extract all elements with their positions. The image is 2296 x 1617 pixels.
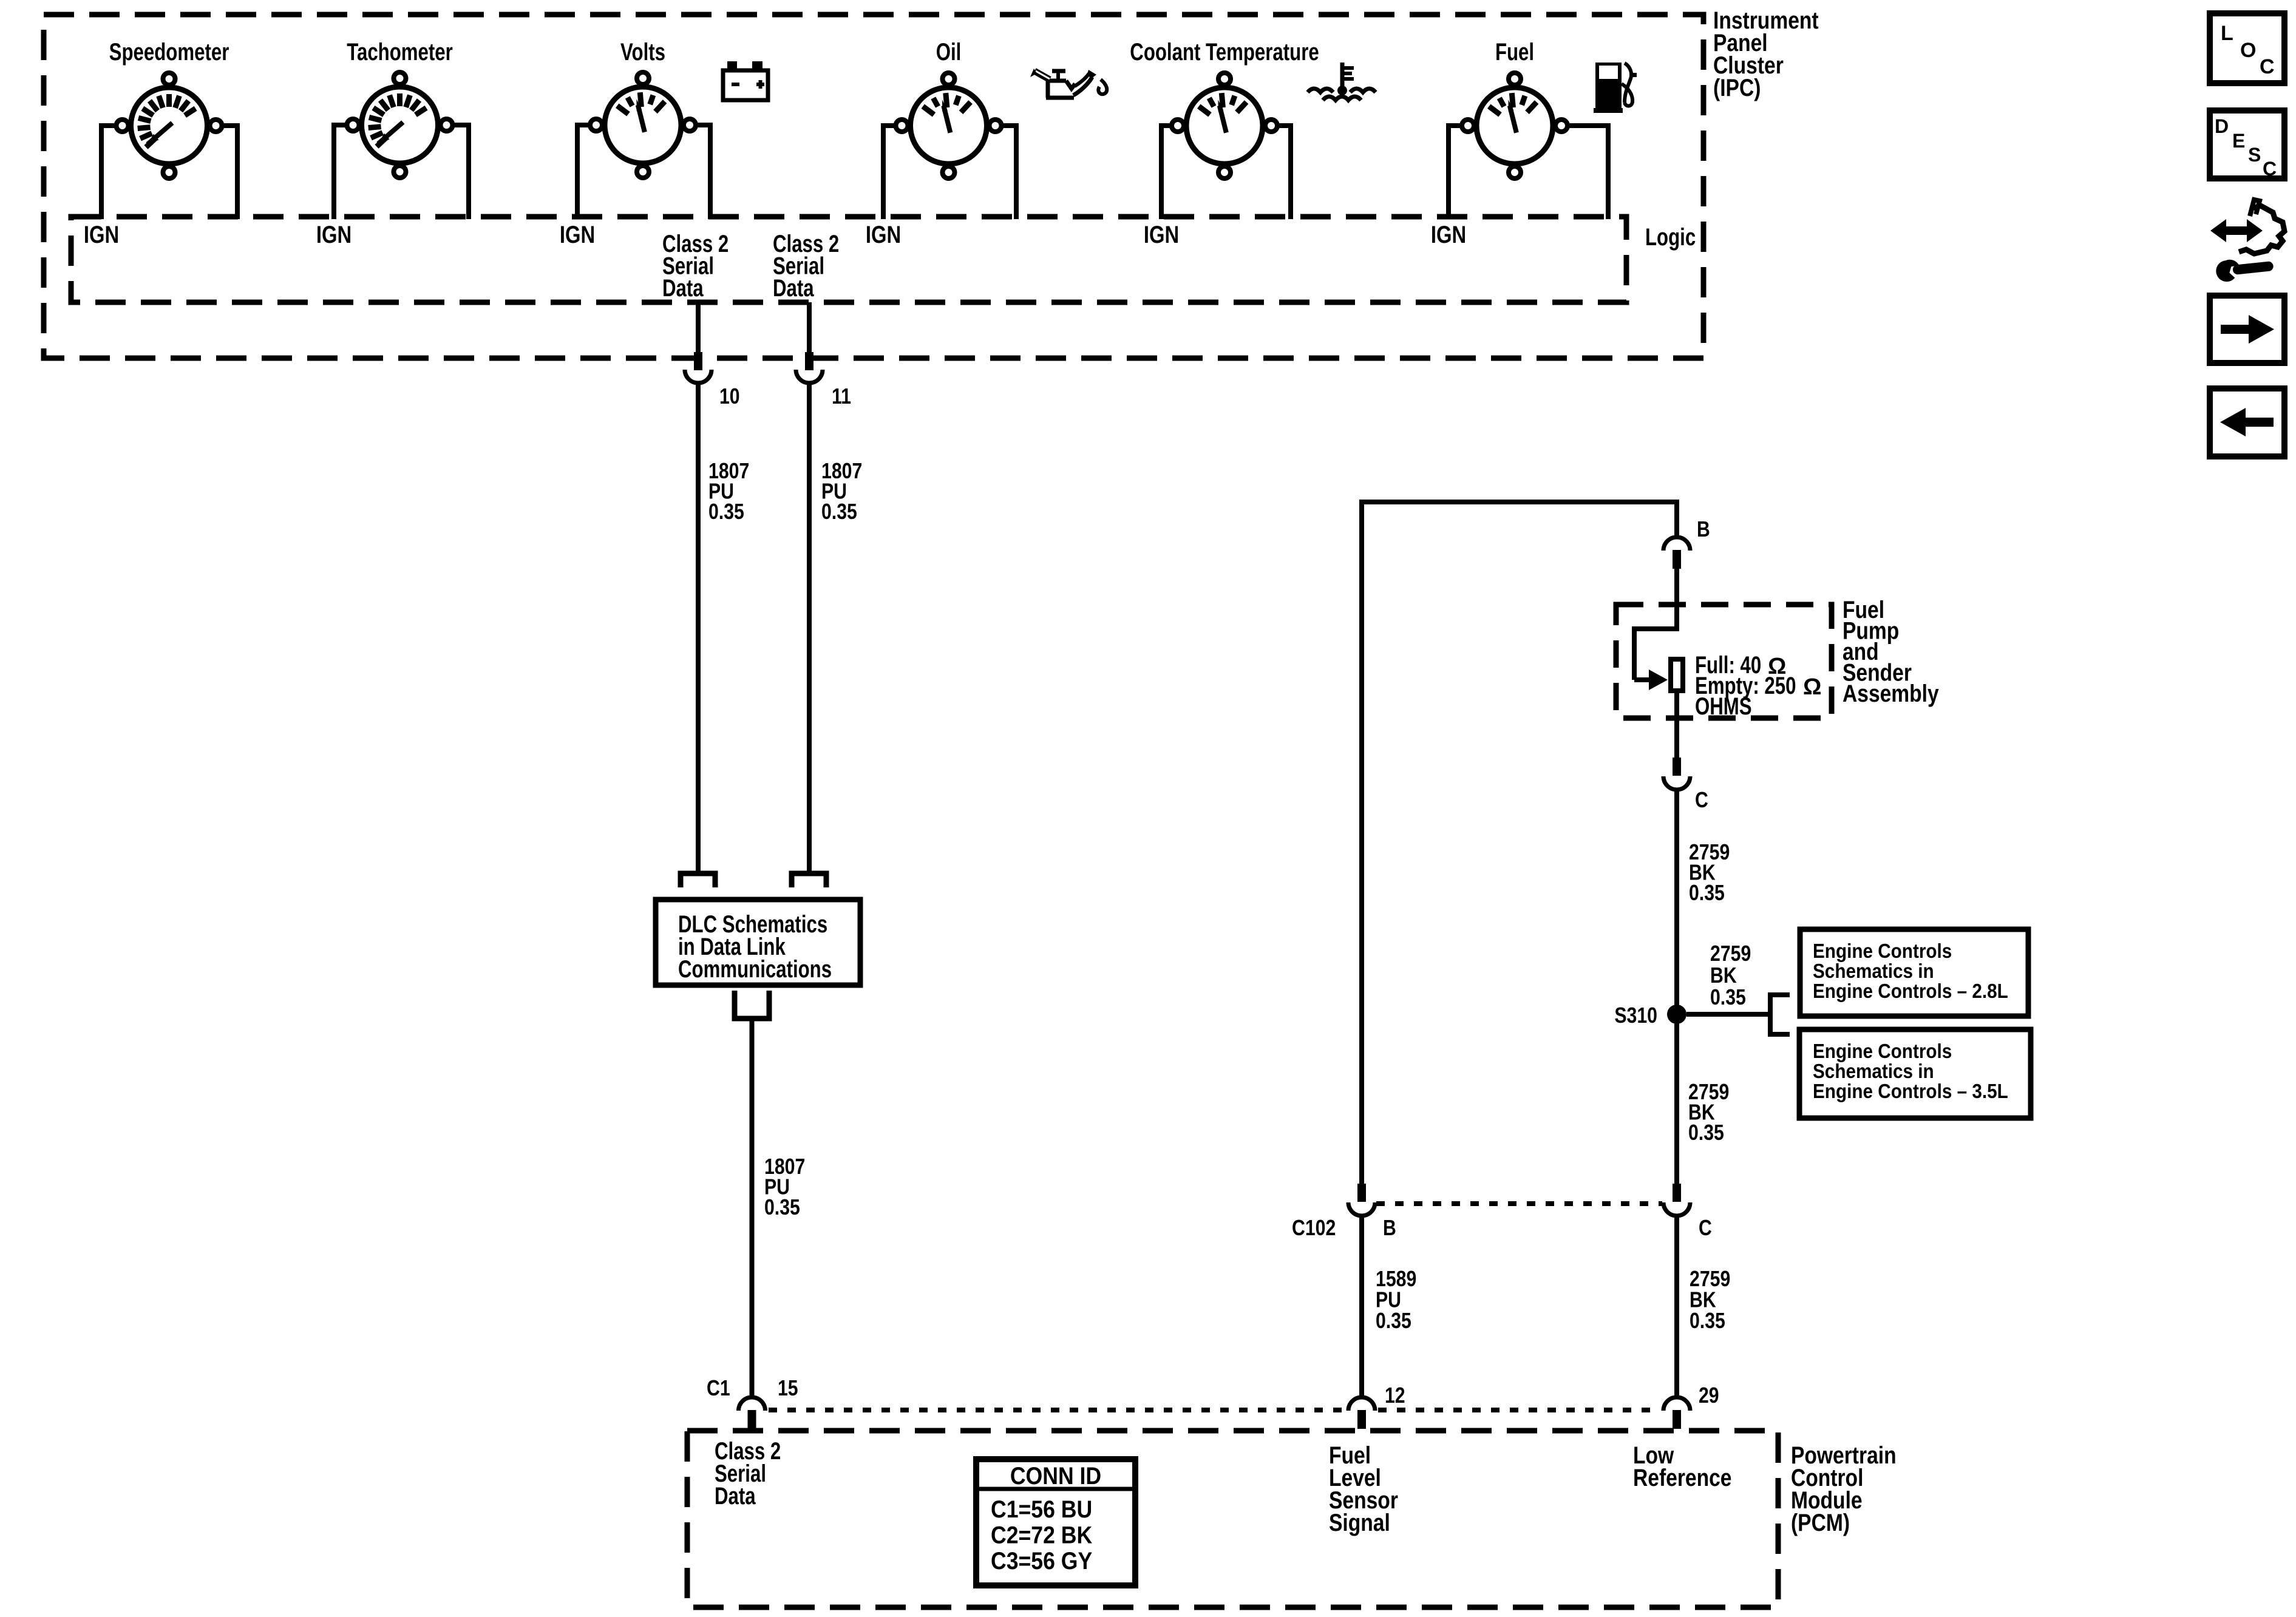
gauge Oil xyxy=(896,73,1002,178)
label 2759 BK 0.35 (below S310) xyxy=(1688,1079,1729,1145)
wire down to fuel pump connector B xyxy=(1674,500,1679,538)
label 2759 BK 0.35 (above S310) xyxy=(1689,839,1730,905)
label IGN (Oil) xyxy=(866,222,901,248)
label B (fuel pump) xyxy=(1697,517,1710,541)
wire 1589 PU from C102 to PCM pin 12 xyxy=(1359,1216,1364,1398)
Instrument Panel Cluster (IPC) dashed box xyxy=(44,15,1703,358)
svg-text:Tachometer: Tachometer xyxy=(347,39,453,66)
gauge Volts xyxy=(590,72,696,178)
connector C102 pin B xyxy=(1348,1184,1375,1216)
svg-text:29: 29 xyxy=(1699,1383,1719,1408)
label C (fuel pump) xyxy=(1695,787,1708,812)
wire class 2 serial data from Logic (pin 11) xyxy=(807,302,812,352)
connector pin 29 at PCM xyxy=(1663,1397,1690,1429)
label Speedometer xyxy=(109,39,229,66)
label Full: 40 ohms xyxy=(1695,652,1786,679)
Engine Controls Schematics 3.5L box xyxy=(1799,1029,2031,1118)
svg-text:E: E xyxy=(2232,130,2245,152)
wire 2759 BK from C to S310 xyxy=(1674,790,1679,1014)
wire 1589 PU left vertical xyxy=(1359,500,1364,1184)
connector pin 10 at IPC xyxy=(685,352,712,383)
splice S310 xyxy=(1667,1005,1686,1024)
label S310 xyxy=(1614,1003,1657,1028)
svg-text:Communications: Communications xyxy=(678,956,832,983)
label 15 xyxy=(778,1375,798,1400)
label Low Reference xyxy=(1633,1442,1732,1491)
svg-text:0.35: 0.35 xyxy=(1689,880,1725,905)
svg-text:Coolant Temperature: Coolant Temperature xyxy=(1130,39,1319,66)
coolant temperature icon xyxy=(1308,63,1376,100)
connector bracket into DLC (left) xyxy=(681,873,715,887)
svg-text:Fuel: Fuel xyxy=(1495,39,1534,66)
svg-text:C1=56 BU: C1=56 BU xyxy=(991,1496,1092,1523)
svg-text:IGN: IGN xyxy=(866,222,901,248)
label C (C102) xyxy=(1699,1215,1712,1240)
wire Fuel left terminal to Logic box xyxy=(1446,126,1462,219)
wire Fuel right terminal to Logic box xyxy=(1567,126,1611,219)
wire elbow inside fuel pump xyxy=(1632,626,1677,680)
label Class 2 Serial Data (PCM) xyxy=(715,1438,781,1510)
svg-text:12: 12 xyxy=(1385,1383,1405,1408)
gauge Tachometer xyxy=(347,72,453,178)
label Fuel Pump and Sender Assembly xyxy=(1843,597,1939,707)
label 11 xyxy=(832,384,851,408)
connector bracket into DLC (right) xyxy=(792,873,826,887)
svg-text:IGN: IGN xyxy=(560,222,595,248)
label Logic xyxy=(1645,224,1696,251)
svg-text:BK: BK xyxy=(1710,963,1737,988)
svg-text:0.35: 0.35 xyxy=(708,499,744,524)
Logic dashed box xyxy=(71,217,1626,302)
gauge Speedometer xyxy=(117,73,222,178)
wire Coolant Temperature left terminal to Logic box xyxy=(1159,126,1172,219)
svg-text:C: C xyxy=(2263,158,2277,180)
label IGN (Volts) xyxy=(560,222,595,248)
label IGN (Speedometer) xyxy=(84,222,119,248)
svg-text:Volts: Volts xyxy=(620,39,665,66)
label Oil xyxy=(936,39,962,66)
svg-text:Engine Controls: Engine Controls xyxy=(1813,940,1952,962)
gauge Fuel xyxy=(1462,73,1567,178)
gauge Coolant Temperature xyxy=(1172,73,1277,178)
svg-text:B: B xyxy=(1383,1215,1396,1240)
svg-text:C: C xyxy=(1699,1215,1712,1240)
label 1807 PU 0.35 (pin 10 wire) xyxy=(708,458,749,524)
wire B pin into fuel pump box xyxy=(1674,569,1679,631)
wire 1807 PU to DLC (from pin 10) xyxy=(696,383,701,873)
connector pin 15 at PCM (C1) xyxy=(739,1397,766,1429)
label 2759 BK 0.35 (branch) xyxy=(1710,941,1751,1009)
label OHMS xyxy=(1695,693,1752,720)
connector B at fuel pump xyxy=(1663,537,1690,569)
dotted line C102 xyxy=(1376,1201,1662,1206)
label 1807 PU 0.35 (pin 11 wire) xyxy=(821,458,862,524)
label IGN (Fuel) xyxy=(1431,222,1466,248)
svg-text:2759: 2759 xyxy=(1710,941,1751,966)
wire S310 branch to engine controls xyxy=(1686,1012,1770,1017)
svg-text:O: O xyxy=(2240,39,2256,62)
label Class 2 Serial Data (pin 11) xyxy=(773,231,839,302)
label 1589 PU 0.35 xyxy=(1376,1266,1416,1333)
svg-text:0.35: 0.35 xyxy=(821,499,857,524)
wire Speedometer left terminal to Logic box xyxy=(99,126,117,219)
wire 2759 BK below S310 xyxy=(1674,1014,1679,1184)
svg-text:Speedometer: Speedometer xyxy=(109,39,229,66)
wire Volts left terminal to Logic box xyxy=(575,125,590,219)
wire 1807 PU to DLC (from pin 11) xyxy=(807,383,812,873)
wire Oil right terminal to Logic box xyxy=(1002,126,1019,219)
svg-text:0.35: 0.35 xyxy=(1688,1120,1724,1145)
svg-text:0.35: 0.35 xyxy=(764,1195,800,1219)
svg-text:Oil: Oil xyxy=(936,39,962,66)
wire Tachometer left terminal to Logic box xyxy=(331,125,347,219)
label 1807 PU 0.35 (DLC to PCM) xyxy=(764,1154,805,1219)
wire Tachometer right terminal to Logic box xyxy=(453,125,472,219)
wire from sender down to connector C xyxy=(1674,691,1679,759)
label Coolant Temperature xyxy=(1130,39,1319,66)
svg-text:11: 11 xyxy=(832,384,851,408)
label Class 2 Serial Data (pin 10) xyxy=(662,231,729,302)
label Tachometer xyxy=(347,39,453,66)
bracket to engine controls boxes xyxy=(1768,995,1790,1034)
label 29 xyxy=(1699,1383,1719,1408)
svg-text:Schematics in: Schematics in xyxy=(1813,1060,1934,1082)
label C1 xyxy=(707,1375,730,1400)
svg-text:15: 15 xyxy=(778,1375,798,1400)
label 10 xyxy=(719,384,740,408)
wire Volts right terminal to Logic box xyxy=(696,125,713,219)
connector bracket below DLC xyxy=(735,991,769,1019)
wire 1589 PU top horizontal xyxy=(1359,500,1679,504)
svg-text:S: S xyxy=(2248,144,2261,166)
label IGN (Tachometer) xyxy=(316,222,352,248)
svg-text:IGN: IGN xyxy=(1431,222,1466,248)
svg-text:Assembly: Assembly xyxy=(1843,680,1939,707)
svg-text:Data: Data xyxy=(715,1483,756,1510)
arrow into sender resistor xyxy=(1649,670,1668,690)
svg-text:C: C xyxy=(2260,55,2275,78)
label Instrument Panel Cluster (IPC) xyxy=(1713,7,1819,101)
svg-text:IGN: IGN xyxy=(1144,222,1179,248)
svg-text:Data: Data xyxy=(662,275,704,302)
svg-text:IGN: IGN xyxy=(316,222,352,248)
back arrow box xyxy=(2210,388,2284,456)
svg-text:L: L xyxy=(2221,22,2233,45)
svg-text:0.35: 0.35 xyxy=(1690,1308,1725,1333)
svg-text:Logic: Logic xyxy=(1645,224,1696,251)
label Fuel xyxy=(1495,39,1534,66)
svg-text:S310: S310 xyxy=(1614,1003,1657,1028)
sender variable resistor xyxy=(1671,659,1683,691)
label IGN (Coolant Temperature) xyxy=(1144,222,1179,248)
label 12 xyxy=(1385,1383,1405,1408)
svg-text:Ω: Ω xyxy=(1803,674,1821,700)
wire Oil left terminal to Logic box xyxy=(881,126,896,219)
svg-text:C: C xyxy=(1695,787,1708,812)
connector pin 11 at IPC xyxy=(796,352,823,383)
svg-text:Engine Controls – 3.5L: Engine Controls – 3.5L xyxy=(1813,1080,2008,1102)
wire Coolant Temperature right terminal to Logic box xyxy=(1277,126,1293,219)
wire 1807 PU from DLC to PCM pin 15 xyxy=(750,1019,755,1398)
connector C102 pin C xyxy=(1663,1184,1690,1216)
fuel pump icon (Fuel) xyxy=(1594,63,1637,113)
Powertrain Control Module (PCM) dashed box xyxy=(687,1431,1778,1607)
svg-text:Reference: Reference xyxy=(1633,1465,1732,1491)
svg-text:C3=56 GY: C3=56 GY xyxy=(991,1548,1092,1575)
svg-text:C1: C1 xyxy=(707,1375,730,1400)
wire class 2 serial data from Logic (pin 10) xyxy=(696,302,701,352)
svg-text:(PCM): (PCM) xyxy=(1791,1510,1850,1536)
svg-text:OHMS: OHMS xyxy=(1695,693,1752,720)
oil can icon (Oil) xyxy=(1030,69,1107,98)
dotted connector row at PCM xyxy=(769,1408,1660,1412)
label Powertrain Control Module (PCM) xyxy=(1791,1442,1897,1536)
Fuel Pump and Sender Assembly dashed box xyxy=(1616,605,1832,718)
part locator icon: double arrow, part outline and wrench xyxy=(2210,200,2284,283)
label Empty: 250 ohms xyxy=(1695,673,1821,700)
connector pin 12 at PCM xyxy=(1348,1397,1375,1429)
svg-text:B: B xyxy=(1697,517,1710,541)
wire 2759 BK from C102 to PCM pin 29 xyxy=(1674,1216,1679,1398)
DLC Schematics box xyxy=(656,900,860,985)
svg-text:(IPC): (IPC) xyxy=(1713,75,1761,101)
label Fuel Level Sensor Signal xyxy=(1329,1442,1398,1536)
CONN ID table xyxy=(976,1459,1135,1585)
svg-text:0.35: 0.35 xyxy=(1376,1308,1411,1333)
svg-text:Engine Controls – 2.8L: Engine Controls – 2.8L xyxy=(1813,980,2008,1002)
forward arrow box xyxy=(2210,296,2284,363)
connector C below fuel pump xyxy=(1663,758,1690,790)
label B (C102) xyxy=(1383,1215,1396,1240)
LOC box xyxy=(2210,13,2284,83)
svg-text:IGN: IGN xyxy=(84,222,119,248)
label C102 xyxy=(1292,1215,1336,1240)
battery icon (Volts) xyxy=(723,61,768,100)
label Volts xyxy=(620,39,665,66)
DESC box xyxy=(2210,110,2284,180)
svg-text:C102: C102 xyxy=(1292,1215,1336,1240)
svg-text:Schematics in: Schematics in xyxy=(1813,960,1934,982)
svg-text:Data: Data xyxy=(773,275,814,302)
svg-text:Signal: Signal xyxy=(1329,1510,1390,1536)
label 2759 BK 0.35 (to PCM) xyxy=(1690,1266,1730,1333)
svg-text:10: 10 xyxy=(719,384,740,408)
svg-text:C2=72 BK: C2=72 BK xyxy=(991,1522,1092,1549)
svg-text:CONN ID: CONN ID xyxy=(1010,1463,1101,1490)
wire Speedometer right terminal to Logic box xyxy=(222,126,240,219)
svg-text:0.35: 0.35 xyxy=(1710,985,1746,1009)
svg-text:D: D xyxy=(2215,115,2229,137)
Engine Controls Schematics 2.8L box xyxy=(1800,929,2028,1016)
svg-text:Engine Controls: Engine Controls xyxy=(1813,1040,1952,1062)
